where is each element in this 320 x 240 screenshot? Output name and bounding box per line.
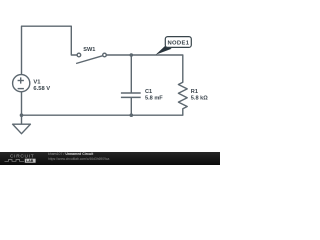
junction dot bottom middle bbox=[130, 113, 134, 117]
wire bottom rail bbox=[22, 109, 183, 115]
wire source-to-ground bbox=[21, 92, 23, 125]
voltage source V1 bbox=[13, 75, 30, 92]
svg-text:5.8 mF: 5.8 mF bbox=[145, 96, 163, 102]
logo CircuitLab: waveform bbox=[5, 160, 25, 162]
svg-text:6.58 V: 6.58 V bbox=[33, 86, 50, 92]
svg-text:C1: C1 bbox=[145, 89, 152, 95]
wire top rail bbox=[107, 55, 183, 82]
junction dot top (node NODE1) bbox=[130, 53, 134, 57]
svg-text:R1: R1 bbox=[191, 89, 198, 95]
svg-text:kham107 / Unnamed Circuit: kham107 / Unnamed Circuit bbox=[48, 152, 94, 156]
wire capacitor bottom bbox=[130, 98, 132, 115]
wire top-left loop bbox=[22, 26, 77, 75]
svg-text:V1: V1 bbox=[33, 79, 41, 85]
svg-text:LAB: LAB bbox=[26, 159, 34, 163]
wire capacitor top bbox=[130, 55, 132, 92]
node NODE1 flag box bbox=[165, 37, 191, 48]
svg-text:https://www.circuitlab.com/c/4: https://www.circuitlab.com/c/46d3h6909ca bbox=[48, 157, 110, 161]
svg-text:5.8 kΩ: 5.8 kΩ bbox=[191, 95, 208, 101]
svg-text:NODE1: NODE1 bbox=[168, 41, 190, 47]
junction dot bottom left bbox=[20, 113, 24, 117]
resistor R1 bbox=[178, 82, 187, 109]
switch SW1 bbox=[76, 53, 106, 63]
node NODE1 flag pointer bbox=[156, 45, 172, 55]
svg-text:SW1: SW1 bbox=[83, 47, 95, 53]
capacitor C1 plates bbox=[121, 93, 141, 97]
ground bbox=[13, 124, 31, 134]
logo CircuitLab: LAB chip bbox=[25, 159, 36, 163]
